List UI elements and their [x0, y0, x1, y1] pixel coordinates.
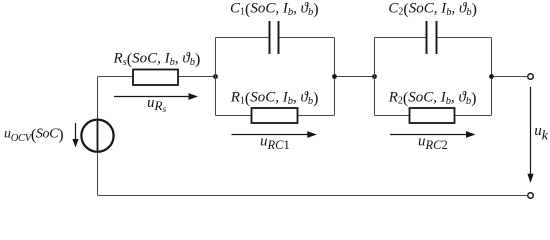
wire block1 top branch — [216, 37, 335, 39]
wire block2 left vertical — [374, 38, 376, 116]
capacitor C1 — [270, 21, 279, 54]
output terminal bottom — [528, 193, 534, 199]
wire block1 right vertical — [334, 38, 336, 116]
label u_Rs — [147, 95, 166, 115]
capacitor C2 — [427, 21, 437, 54]
voltage arrow u_Rs — [114, 93, 198, 100]
voltage arrow u_OCV — [72, 123, 78, 148]
label u_k — [534, 123, 549, 144]
resistor R2 — [410, 108, 455, 123]
label Rs(SoC, Ib, thetab) — [113, 50, 201, 68]
voltage arrow u_k — [527, 87, 533, 183]
resistor Rs — [133, 70, 178, 86]
node A junction dot — [213, 74, 218, 79]
label u_RC2 — [418, 134, 448, 153]
label R2(SoC, Ib, thetab) — [388, 89, 477, 107]
label C2(SoC, Ib, thetab) — [388, 0, 477, 18]
voltage arrow u_RC1 — [232, 131, 317, 138]
resistor R1 — [252, 108, 298, 123]
node B junction dot — [332, 74, 337, 79]
wire bottom return — [98, 195, 528, 197]
wire block1 left vertical — [215, 38, 217, 116]
wire block2 top branch — [375, 37, 492, 39]
output terminal top — [528, 74, 534, 80]
label u_RC1 — [260, 134, 290, 153]
wire source vertical upper — [97, 77, 99, 120]
node C junction dot — [372, 74, 377, 79]
wire block2 bottom branch — [375, 115, 492, 117]
wire Rs to node A — [178, 76, 216, 78]
voltage arrow u_RC2 — [390, 131, 476, 138]
wire node D to output terminal — [492, 76, 528, 78]
label C1(SoC, Ib, thetab) — [230, 0, 319, 18]
wire source vertical lower — [97, 152, 99, 196]
node D junction dot — [489, 74, 494, 79]
wire block2 right vertical — [491, 38, 493, 116]
label u_OCV(SoC) — [4, 126, 63, 143]
wire main left segment — [98, 76, 134, 78]
voltage source U_OCV — [81, 120, 113, 152]
label R1(SoC, Ib, thetab) — [230, 89, 319, 107]
wire block1 bottom branch — [216, 115, 335, 117]
wire between RC blocks — [335, 76, 375, 78]
